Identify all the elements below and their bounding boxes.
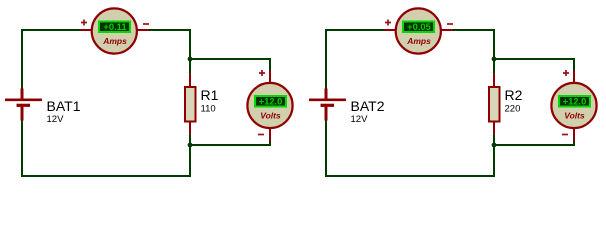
svg-text:BAT1: BAT1 (47, 98, 81, 114)
wire: top-left horizontal from battery branch to ammeter + pin (right) (326, 29, 384, 31)
svg-text:+0.11: +0.11 (103, 21, 126, 32)
svg-text:+12.0: +12.0 (259, 96, 283, 107)
resistor R2 (489, 73, 500, 135)
R1 body (185, 87, 196, 122)
R1 top pin (189, 73, 191, 88)
ammeter U3 (Amps) (384, 8, 453, 53)
voltmeter LCD display (558, 95, 591, 108)
node B junction dot (188, 143, 193, 148)
voltmeter + mark (563, 70, 569, 76)
ammeter body circle (92, 8, 137, 53)
svg-text:BAT2: BAT2 (351, 98, 385, 114)
ammeter right pin (441, 29, 453, 31)
voltmeter + mark (259, 70, 265, 76)
R1 bottom pin (189, 120, 191, 135)
battery BAT2 (309, 89, 346, 121)
voltmeter top pin (573, 70, 575, 83)
voltmeter U4 (Volts) (551, 70, 596, 141)
ammeter U1 (Amps) (80, 8, 149, 53)
ammeter LCD display (402, 21, 435, 34)
R2 top pin (493, 73, 495, 88)
wire: top-left horizontal from battery branch to ammeter + pin (22, 29, 80, 31)
svg-text:Volts: Volts (564, 111, 585, 121)
wire: left vertical from BAT1 bottom pin down to bottom rail (21, 120, 23, 177)
wire: R2 bottom pin through node D down to bottom rail (493, 134, 495, 177)
wire: bottom rail of right circuit (325, 175, 494, 177)
voltmeter U2 (Volts) (247, 70, 292, 141)
voltmeter LCD display (254, 95, 287, 108)
svg-text:12V: 12V (351, 114, 369, 125)
svg-text:Volts: Volts (260, 111, 281, 121)
svg-text:220: 220 (505, 104, 521, 115)
wire: node A right to voltmeter + pin (189, 59, 270, 71)
battery BAT1 (5, 89, 42, 121)
voltmeter bottom pin (269, 128, 271, 141)
ammeter left pin (80, 29, 92, 31)
svg-text:R2: R2 (505, 87, 523, 103)
voltmeter - mark (258, 134, 264, 136)
svg-text:Amps: Amps (102, 36, 127, 46)
ammeter left pin (384, 29, 396, 31)
svg-text:Amps: Amps (406, 36, 431, 46)
R2 bottom pin (493, 120, 495, 135)
svg-text:+12.0: +12.0 (563, 96, 587, 107)
voltmeter top pin (269, 70, 271, 83)
node A junction dot (188, 57, 193, 62)
node D junction dot (492, 143, 497, 148)
wire: voltmeter - pin to node B (190, 140, 270, 145)
wire: node C to R2 top pin (493, 59, 495, 74)
ammeter - mark (447, 23, 453, 25)
wire: node C right to voltmeter + pin (493, 59, 574, 71)
resistor R1 (185, 73, 196, 135)
ammeter body circle (396, 8, 441, 53)
wire: node A to R1 top pin (189, 59, 191, 74)
svg-text:110: 110 (201, 104, 216, 115)
ammeter right pin (137, 29, 149, 31)
wire: ammeter - pin to top-right corner, down to node C (453, 30, 494, 59)
ammeter - mark (143, 23, 149, 25)
voltmeter bottom pin (573, 128, 575, 141)
wire: left vertical from top corner down to BAT1 top pin (21, 29, 23, 89)
svg-text:+0.05: +0.05 (407, 21, 431, 32)
svg-text:R1: R1 (201, 87, 219, 103)
voltmeter body circle (247, 83, 292, 128)
node C junction dot (492, 57, 497, 62)
wire: left vertical from BAT2 bottom pin down to bottom rail (325, 120, 327, 177)
ammeter LCD display (98, 21, 131, 34)
svg-text:12V: 12V (47, 114, 65, 125)
ammeter + mark (81, 20, 87, 26)
ammeter + mark (385, 20, 391, 26)
wire: left vertical from top corner down to BAT2 top pin (325, 29, 327, 89)
wire: voltmeter - pin to node D (494, 140, 574, 145)
voltmeter - mark (562, 134, 568, 136)
wire: ammeter - pin to top-right corner, down to node A (149, 30, 190, 59)
wire: R1 bottom pin through node B down to bottom rail (189, 134, 191, 177)
R2 body (489, 87, 500, 122)
wire: bottom rail of left circuit (21, 175, 190, 177)
voltmeter body circle (551, 83, 596, 128)
